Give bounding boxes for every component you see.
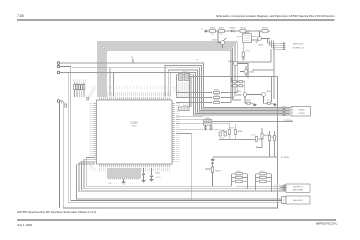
tiny part near IC corner — [87, 97, 89, 100]
IC left pin labels — [89, 103, 94, 162]
termination group B row3 — [256, 180, 272, 182]
transistor Q0503 — [228, 61, 248, 77]
svg-text:R0521: R0521 — [214, 90, 219, 92]
svg-text:CR0501: CR0501 — [229, 28, 235, 30]
svg-text:RN0500: RN0500 — [183, 72, 189, 74]
connector box right arrows — [281, 185, 286, 191]
transistor Q0502 — [256, 31, 270, 47]
svg-text:R0551: R0551 — [236, 175, 241, 177]
svg-text:J0500: J0500 — [299, 110, 306, 112]
wire y139.5 — [219, 139, 257, 141]
svg-text:PCIC: PCIC — [132, 126, 137, 128]
connector box ANLG — [286, 196, 310, 204]
resistor R0502 — [219, 28, 225, 33]
resistor pair box mid — [203, 118, 211, 125]
wire y147.5 — [257, 147, 263, 149]
svg-text:July 1, 2002: July 1, 2002 — [17, 223, 33, 227]
transistor Q0501 — [212, 31, 226, 48]
svg-text:Q0501: Q0501 — [212, 40, 217, 42]
svg-text:GRN CLR-P: GRN CLR-P — [293, 44, 305, 46]
svg-text:R0505: R0505 — [246, 51, 251, 53]
IC right pin column — [172, 103, 175, 162]
output arrows — [283, 42, 286, 50]
svg-text:R0550: R0550 — [236, 171, 241, 173]
svg-text:R0542: R0542 — [156, 177, 161, 179]
tiny net stubs left of bottom arrows — [275, 184, 280, 186]
wire bus B2 (left circles to J0500 fan) — [60, 63, 283, 115]
resistor R0503 — [240, 28, 246, 33]
dot-resistor rows mid-right 2x2 row1 — [231, 77, 245, 83]
svg-text:R0540: R0540 — [216, 171, 221, 173]
diode CR0501 — [229, 28, 235, 33]
svg-text:C0531: C0531 — [219, 138, 224, 140]
power flag at rail start — [205, 30, 207, 32]
termination group B row1 — [256, 173, 272, 175]
svg-text:E1: E1 — [131, 57, 133, 59]
long vertical right x277.5 — [277, 77, 279, 205]
resistor R0538 vertical — [273, 131, 275, 157]
transistor Q0504 — [236, 91, 247, 103]
resistor R0535 vertical — [255, 137, 263, 148]
IC bottom pin labels — [100, 167, 171, 171]
resistor below Q0504 — [246, 100, 255, 104]
resistor R0505 with ground — [241, 43, 245, 60]
component box U0501 — [242, 32, 251, 43]
connector box ASTRO TX — [286, 184, 310, 192]
IC right pin labels — [176, 103, 180, 162]
capacitor C0540 under IC — [142, 168, 146, 183]
IC bottom pin drops with dots — [108, 168, 140, 179]
svg-text:VR0531: VR0531 — [229, 128, 235, 130]
svg-text:R0503: R0503 — [241, 28, 246, 30]
IC bottom pin row — [100, 164, 171, 167]
stub on circle1 line — [132, 59, 134, 64]
ground mid left — [211, 157, 215, 162]
wire top-right extra verticals — [252, 44, 274, 102]
wire bottom bus extra — [63, 101, 292, 207]
capacitor pair mid-left — [204, 125, 213, 130]
svg-text:R0504: R0504 — [263, 28, 268, 30]
resistor R0536 vertical — [261, 128, 269, 148]
svg-text:68P81076C25-C: 68P81076C25-C — [316, 222, 338, 226]
termination group B row2 — [256, 176, 272, 178]
resistor R0534 vertical — [234, 124, 242, 140]
wire bus B1 top-left (5 lines to IC top pins) — [98, 42, 237, 103]
wire rail to box — [237, 36, 258, 40]
svg-text:RN0502: RN0502 — [183, 105, 189, 107]
svg-text:Schematics, Component Location: Schematics, Component Location Diagrams,… — [216, 14, 335, 18]
svg-text:A THRU L-P: A THRU L-P — [293, 46, 305, 49]
wires left vertical drops to bottom nest — [77, 158, 287, 199]
wire B1 right vertical drop joins — [247, 77, 249, 79]
svg-text:7-50: 7-50 — [17, 14, 24, 18]
ground under IC 1 — [122, 179, 126, 184]
svg-text:U0501: U0501 — [245, 32, 250, 34]
transistor Q0505 — [247, 91, 271, 103]
pull-up row 3 — [176, 100, 224, 104]
svg-text:U0100: U0100 — [130, 122, 138, 125]
resistor R0533 vertical — [222, 124, 231, 140]
svg-text:Q0506: Q0506 — [249, 72, 254, 74]
resistor R0501 — [210, 28, 216, 33]
svg-text:R0502: R0502 — [219, 28, 224, 30]
wire long y76 — [186, 76, 278, 78]
svg-text:R0560: R0560 — [61, 103, 66, 105]
connector J0500 box — [285, 106, 311, 116]
connector circle P3 — [57, 71, 60, 74]
IC left pin column — [94, 103, 97, 162]
termination group B feeds — [256, 174, 272, 192]
svg-text:R0534: R0534 — [237, 131, 242, 133]
svg-text:Q0504: Q0504 — [236, 91, 241, 93]
dot-resistor rows mid-right 2x2 row2 — [231, 82, 245, 93]
svg-text:C0530: C0530 — [220, 130, 225, 132]
connector circle P1 — [57, 62, 60, 65]
resistor R0537 vertical — [268, 131, 276, 157]
wire bottom band2 line — [60, 73, 286, 203]
svg-text:R0531: R0531 — [205, 118, 210, 120]
svg-text:R0511: R0511 — [246, 100, 251, 102]
svg-text:B+ SW B+: B+ SW B+ — [281, 157, 289, 159]
svg-text:C0541: C0541 — [155, 173, 160, 175]
small resistor near P4 — [65, 104, 67, 107]
rail y62 — [233, 49, 271, 62]
header rule — [17, 19, 335, 21]
output wires with corners — [268, 39, 284, 50]
vertical pair right of fuzz — [190, 73, 191, 107]
IC top-right corner label fuzz — [173, 87, 179, 92]
resistor pack RN1 top-right of IC — [179, 74, 183, 81]
net label wire below J0500 — [203, 121, 293, 123]
capacitor pair mid cluster — [219, 130, 226, 136]
svg-text:R0523: R0523 — [214, 100, 219, 102]
IC corner pin label arc fuzz — [89, 86, 95, 97]
termination group A row2 — [232, 176, 248, 178]
wire stubs B1 to pull-up rows — [224, 93, 242, 103]
wire circle4 drop — [60, 101, 278, 208]
svg-text:16 PIN: 16 PIN — [298, 113, 305, 115]
top-right rail wire — [207, 30, 270, 32]
svg-text:R0553: R0553 — [260, 175, 265, 177]
connector J0500 pin stubs — [283, 107, 285, 116]
ground right of Q0505 — [273, 103, 277, 107]
IC U0100 body — [97, 100, 173, 164]
connector circle P4 — [57, 100, 60, 103]
svg-text:ANLG EXP: ANLG EXP — [293, 199, 303, 202]
wire y155 with label — [213, 156, 278, 158]
IC top pin labels — [100, 92, 171, 97]
svg-text:R0535: R0535 — [251, 135, 256, 137]
svg-text:R0501: R0501 — [210, 28, 215, 30]
resistor R0504 — [262, 28, 268, 33]
svg-text:R0552: R0552 — [260, 171, 265, 173]
wire drops from B2 bus to IC top pins — [110, 68, 171, 97]
resistor pack RN2 top-right of IC — [185, 74, 189, 81]
footer rule — [17, 219, 336, 221]
svg-text:ASTRO Spectra Plus RF Interfac: ASTRO Spectra Plus RF Interface Schemati… — [16, 210, 96, 214]
termination group A row3 — [232, 180, 248, 182]
resistor pack RN3 — [179, 107, 189, 111]
svg-text:Q0505: Q0505 — [266, 91, 271, 93]
svg-text:R0522: R0522 — [214, 95, 219, 97]
transistor Q0506 — [240, 66, 254, 77]
wire fuzz rows right of IC top — [176, 83, 189, 97]
IC top pin row — [100, 97, 171, 100]
svg-text:R0535: R0535 — [258, 139, 263, 141]
termination group A row1 — [232, 173, 248, 175]
pull chain vertical with resistor — [205, 162, 221, 186]
connector sub-box — [282, 197, 287, 204]
termination group A feeds — [232, 174, 248, 189]
svg-text:AMP DEMO: AMP DEMO — [293, 189, 304, 192]
IC bottom-left corner label fuzz — [90, 166, 96, 171]
connector circle P2 — [57, 65, 60, 68]
micro labels fuzz — [61, 34, 272, 185]
svg-text:ASTRO TX: ASTRO TX — [293, 186, 303, 189]
pull-up row 1 (dot-resistor-dot) — [176, 90, 224, 94]
resistor below Q0505 — [266, 102, 275, 104]
svg-text:5V SW B+: 5V SW B+ — [284, 120, 292, 122]
capacitor C0541 under IC — [150, 168, 160, 182]
svg-text:Q0502: Q0502 — [258, 45, 263, 47]
pull-up resistor row array left of IC — [73, 81, 86, 98]
ground right of Q0504 — [253, 103, 257, 107]
svg-text:Q0503: Q0503 — [228, 61, 233, 63]
pull-up row 2 — [176, 95, 224, 99]
wires IC right to mid components — [176, 117, 230, 134]
wire circle2 drop — [60, 67, 286, 201]
